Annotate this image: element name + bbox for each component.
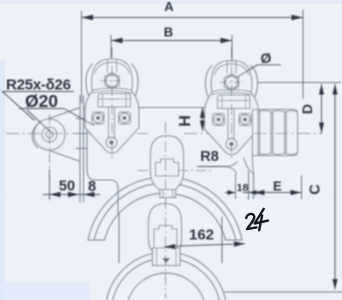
left bolt washer L [92,112,104,124]
arrow A right [292,15,304,20]
leader dia20 second diagonal [64,109,94,126]
right wheel arc right [251,66,258,110]
lower saddle arc inner [128,273,204,300]
arrow 18 [228,190,236,195]
bell2 foot dark mark [162,258,170,264]
body left edge with corner [87,101,118,213]
bracket tick marks [76,119,87,149]
leader R25 underline [2,91,74,93]
right roller rect [218,95,251,109]
dim D ext top [258,82,341,84]
eye vertical centerline [49,114,51,199]
background blue streaks [0,0,342,4]
svg-text:D: D [299,104,315,114]
right bolt center R [243,118,247,122]
eye hole circle [46,131,53,138]
arrow H top [200,108,205,119]
upper saddle arc middle [94,183,236,240]
R8 fillet hook [227,162,237,174]
drum left flange [258,110,260,156]
right bolt circle L [214,115,224,125]
right hex nut [224,74,238,91]
arrow C bottom [332,279,337,290]
arrow 50 right [68,192,79,197]
handwritten 24 [246,209,269,231]
right hex horizontal centerline [220,81,244,83]
drum rib line 2 [285,112,287,154]
upper saddle arc inner [105,193,226,240]
dim 50 line [43,194,84,196]
right bolt washer L [213,114,225,126]
bell1 body [151,136,184,190]
lower saddle arc middle [113,258,220,300]
arrow C top [332,84,337,95]
leader R8 line [197,166,227,168]
left plate outline [85,59,139,153]
left bottom bolt center [109,140,114,145]
dim A line [82,17,304,19]
right bolt circle R [240,115,250,125]
drum top scallops [258,111,297,112]
upper saddle right end cap [226,239,243,241]
left hex nut circle [106,75,118,87]
arrow 162 left [164,244,175,250]
right center strip [228,109,234,141]
eye outer circle [34,119,65,150]
left wheel arc right [132,64,139,98]
eye middle circle [42,127,57,142]
leader dia20 diagonal [27,110,51,132]
leader for dia label [237,65,258,78]
bell2 foot inner lines [157,248,177,266]
dim C line [334,84,336,290]
centerlines [6,47,322,298]
dim 18 tail line [225,192,236,194]
svg-text:Ø20: Ø20 [25,91,58,111]
arm bottom edge [44,149,80,162]
svg-text:H: H [177,115,194,127]
drum under fillet curves [244,158,253,173]
dim 162 line [164,244,245,247]
left bolt circle L [93,113,103,123]
right bolt center L [217,118,221,122]
left bolt circle R [120,113,130,123]
arrow 162 right [234,241,245,246]
arrow D bottom [319,123,324,134]
right roller inner lines [218,95,251,109]
right plate outline [205,61,259,155]
dim C ext bottom [224,291,342,293]
arm top edge [44,108,81,121]
drum body [253,110,298,156]
svg-text:50: 50 [59,179,75,195]
dim 8 tail line [84,194,101,196]
svg-text:B: B [164,25,173,40]
body top edge [84,107,213,109]
left hex horizontal centerline [100,80,124,82]
drum bottom scallops [258,153,297,154]
svg-text:18: 18 [237,182,249,194]
dim 162 ext left [118,213,120,263]
dim B ext left [110,35,112,58]
upper saddle left end cap [88,239,105,241]
dim 50 ext left [49,169,51,200]
left plate inner dome line [95,63,129,74]
left bottom bolt [106,137,117,148]
dim 162 ext right [221,217,223,263]
bell2 roller block [154,226,177,249]
right plate vertical centerline [231,47,233,160]
leader dia20 underline [19,108,64,110]
right bolt shank [227,62,236,74]
arrow B left [111,38,123,43]
left bolt shank [108,60,117,72]
left roller rect [98,94,131,108]
arrow 18 right [249,190,257,195]
svg-text:C: C [308,184,324,195]
arrow 50 left [50,192,61,197]
right wheel arc left [205,66,212,100]
right bottom bolt [226,139,237,150]
arrow E left [254,190,265,195]
arrow H bottom [200,121,205,132]
left roller inner lines [98,94,131,108]
arrow A left [82,15,94,20]
drum rib line 1 [271,112,273,154]
bell2 body [149,204,182,254]
left hex nut [105,72,119,89]
svg-text:8: 8 [88,179,96,195]
left wheel arc left [86,64,93,98]
svg-text:R8: R8 [200,149,219,165]
arrow 8 [84,192,95,197]
right plate inner dome line [214,64,248,75]
arrow B right [221,38,233,43]
leader R25 diagonal [3,92,35,121]
bracket plate verticals [80,96,84,203]
dim 18 ext right [248,171,250,200]
dim E ext right [301,176,303,200]
right bottom bolt center [229,142,234,147]
right plate strap band [212,90,251,95]
dim 18 ext left [235,174,237,199]
bell1 foot [160,190,176,198]
svg-text:Ø: Ø [261,50,272,66]
dim B ext right [231,35,233,60]
eye rim arc [32,122,41,148]
left plate vertical centerline [111,47,113,158]
dim H line [202,108,204,132]
dim A ext left [81,11,83,103]
left plate strap band [93,88,132,93]
dim D line [321,84,323,133]
arrow E right [291,190,302,195]
lower saddle arc outer [106,252,225,300]
dim A ext right [302,10,304,99]
left bolt center L [96,116,100,120]
bell1 roller block [156,159,179,176]
svg-text:E: E [273,179,282,194]
right hex nut circle [226,76,238,88]
svg-text:A: A [164,0,174,14]
leader for dia label underline [257,64,281,66]
bell1 foot inner lines [163,190,173,198]
left center strip [109,107,115,139]
dim E ext left [253,173,255,200]
bell2 foot [153,248,181,266]
left bolt washer R [119,112,131,124]
arrow D top [319,84,324,95]
bell1 roller horizontal centerline [138,170,214,172]
main horizontal centerline [6,133,322,135]
upper saddle arc outer [88,177,242,240]
left bolt center R [123,116,127,120]
svg-text:162: 162 [189,227,214,244]
bell vertical centerline [165,122,167,298]
dim E line [243,192,302,194]
dim B line [111,40,232,42]
right bolt washer R [239,114,251,126]
arrowheads [50,15,338,290]
